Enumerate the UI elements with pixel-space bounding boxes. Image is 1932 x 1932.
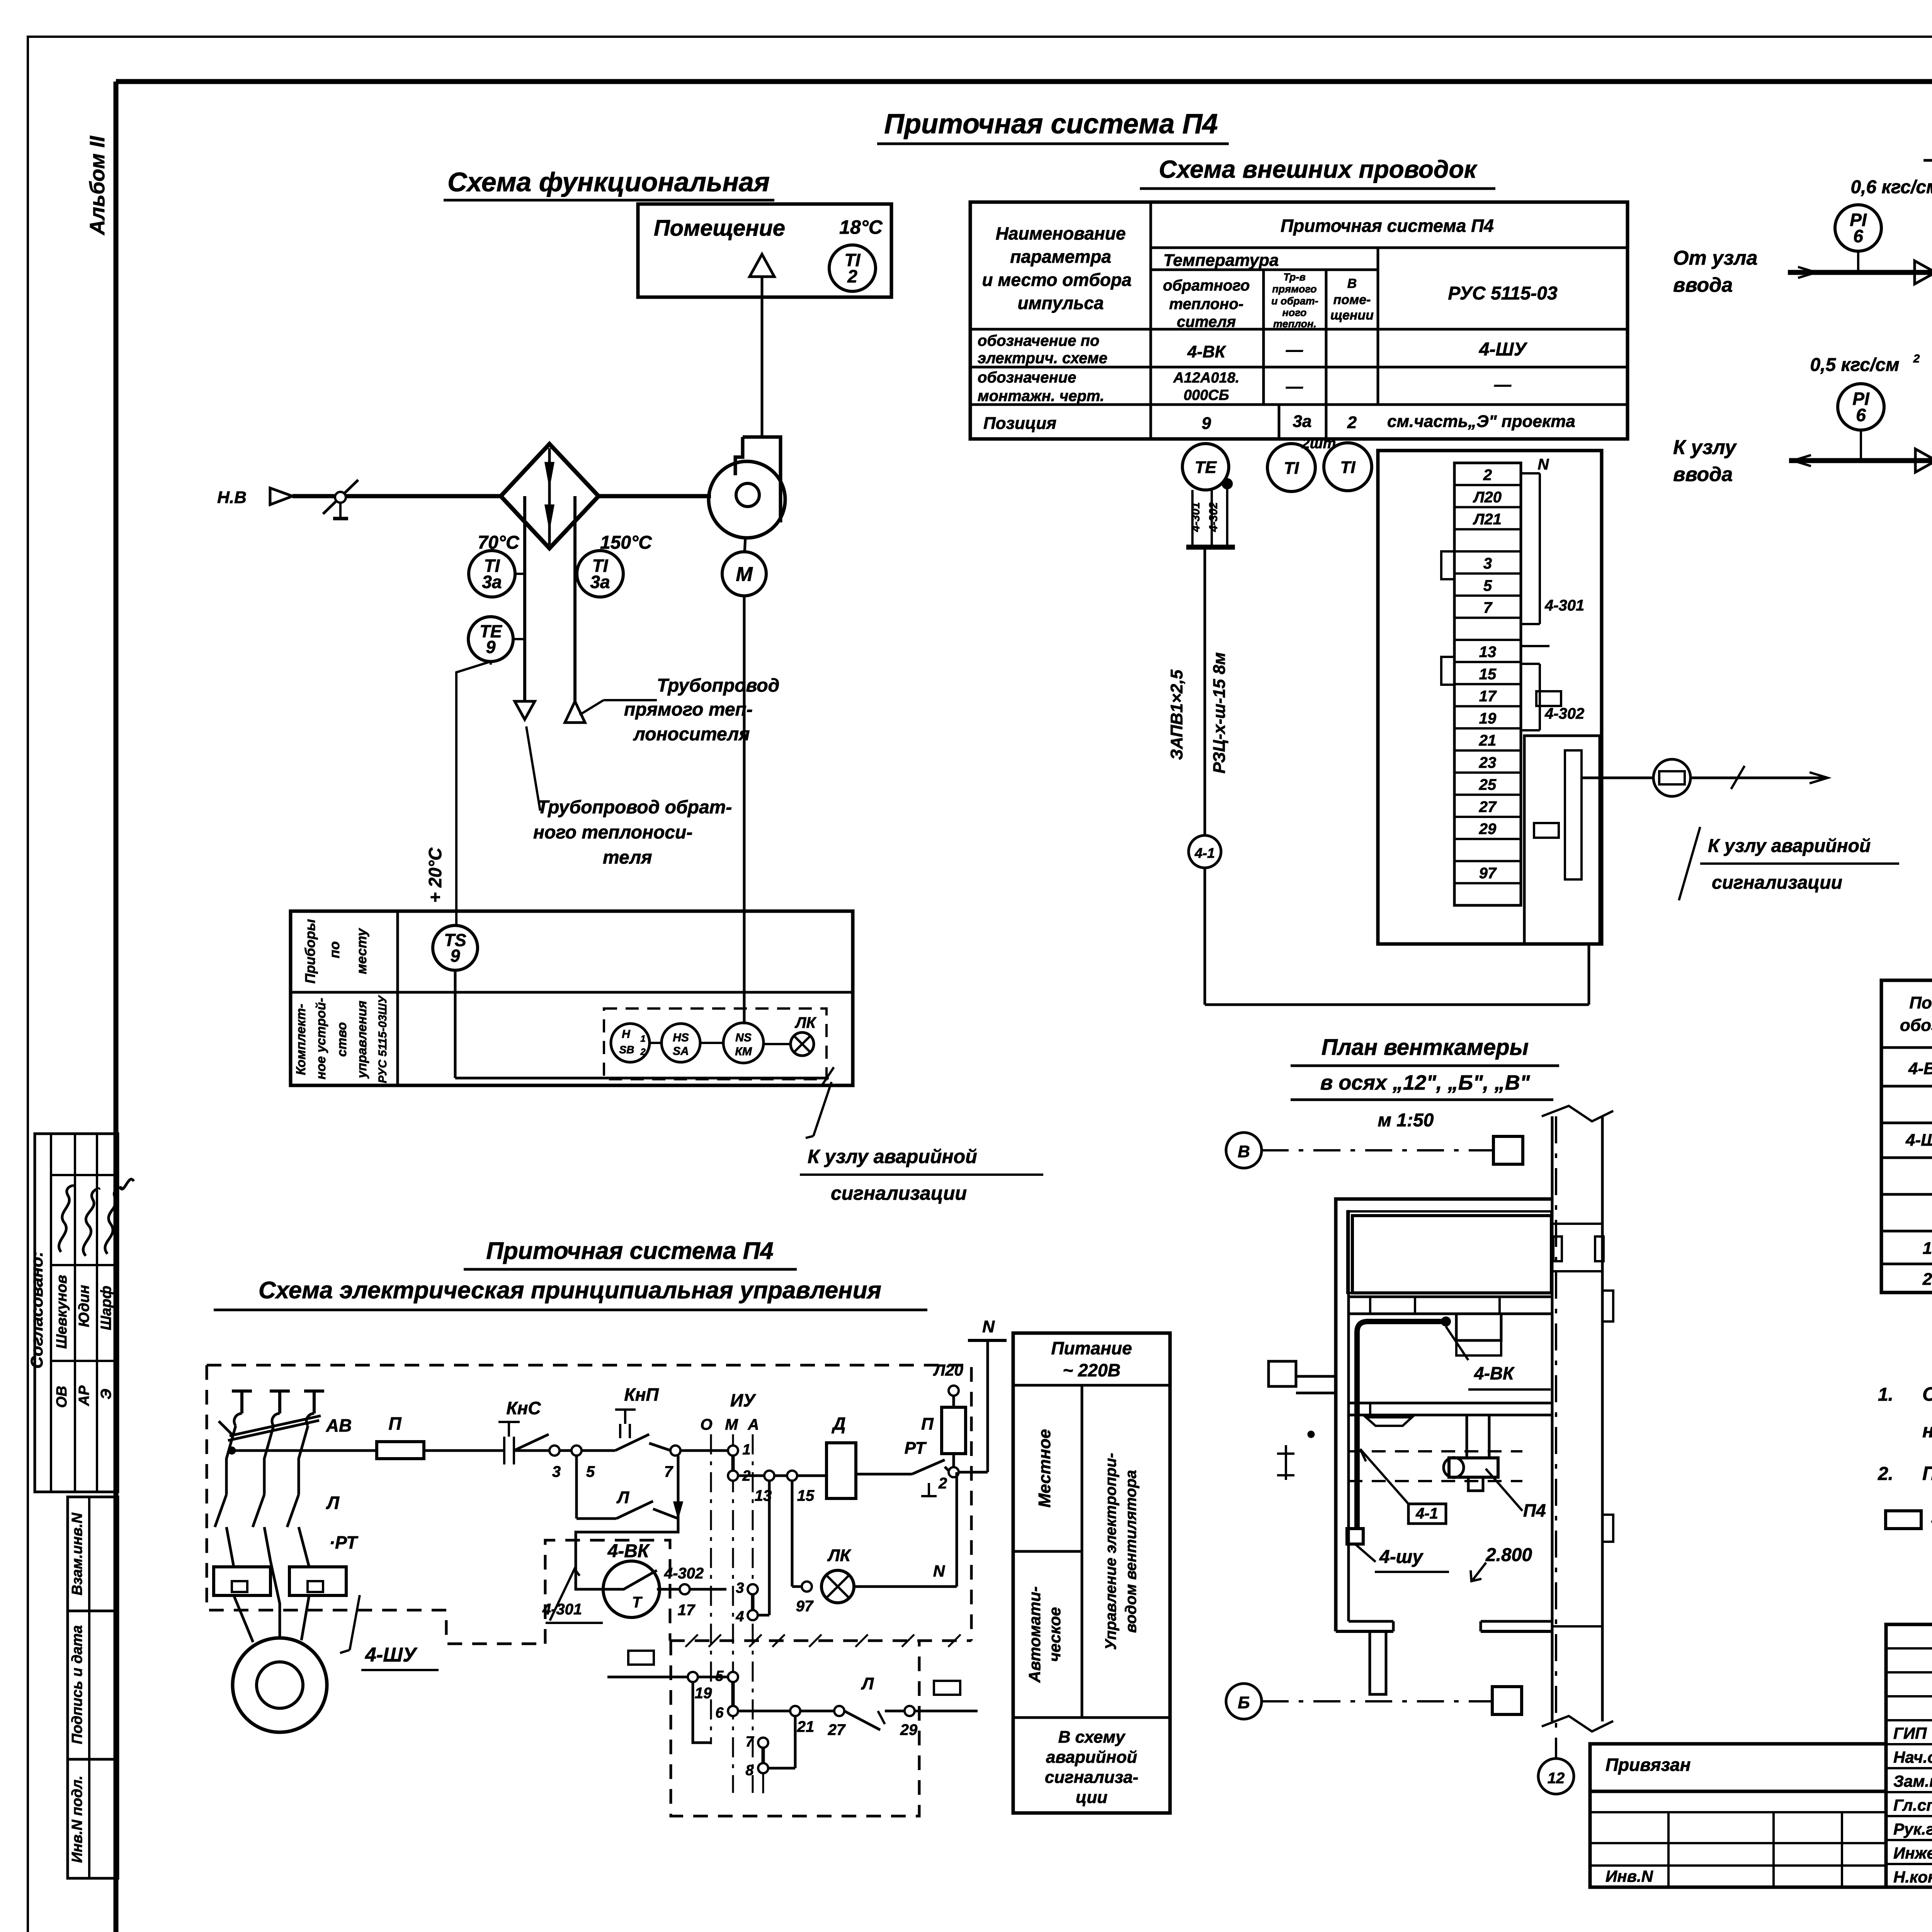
heavy cable 4-VK — [1357, 1321, 1446, 1529]
wire 2-13-15 — [738, 1475, 811, 1477]
air damper — [323, 480, 358, 514]
air duct line — [293, 494, 501, 498]
svg-text:носного манометра.: носного манометра. — [1922, 1420, 1932, 1442]
svg-text:Схема внешних проводок: Схема внешних проводок — [1159, 155, 1478, 183]
svg-text:4-302: 4-302 — [664, 1565, 704, 1582]
svg-text:теплоно-: теплоно- — [1169, 296, 1243, 313]
svg-text:обозн.: обозн. — [1900, 1016, 1932, 1035]
heat pipes — [523, 548, 526, 701]
svg-text:От узла: От узла — [1673, 247, 1758, 269]
svg-text:ное устрой-: ное устрой- — [314, 998, 328, 1079]
svg-text:Питание: Питание — [1051, 1338, 1132, 1358]
svg-text:~ 220В: ~ 220В — [1063, 1360, 1121, 1380]
wire 21 to 8 — [794, 1716, 797, 1768]
svg-text:ческое: ческое — [1046, 1607, 1064, 1662]
svg-text:2.: 2. — [1878, 1464, 1893, 1484]
title block attachment row — [1590, 1744, 1886, 1791]
svg-text:21: 21 — [797, 1718, 815, 1735]
svg-text:2: 2 — [1483, 467, 1492, 484]
wall window tabs — [1553, 1236, 1562, 1261]
svg-text:м 1:50: м 1:50 — [1378, 1110, 1434, 1131]
svg-text:Н.В: Н.В — [217, 488, 247, 507]
svg-text:70°C: 70°C — [478, 532, 520, 553]
main wire — [232, 1449, 377, 1452]
svg-text:Автомати-: Автомати- — [1026, 1586, 1044, 1683]
chamber walls — [1336, 1199, 1552, 1631]
label 4-shu plan — [1355, 1544, 1376, 1562]
svg-text:Инв.N: Инв.N — [1605, 1867, 1654, 1885]
wire 4 to 13 — [758, 1614, 769, 1617]
svg-text:ЛК: ЛК — [827, 1546, 851, 1565]
svg-text:9: 9 — [1202, 414, 1211, 433]
svg-text:19: 19 — [1479, 710, 1497, 727]
svg-text:15: 15 — [797, 1487, 815, 1504]
svg-text:ввода: ввода — [1673, 274, 1733, 296]
svg-text:4-ШУ: 4-ШУ — [1479, 339, 1528, 360]
svg-text:3а: 3а — [482, 572, 502, 592]
svg-text:обратного: обратного — [1163, 277, 1250, 294]
node 5 — [571, 1446, 582, 1456]
svg-text:Тр-в: Тр-в — [1283, 271, 1306, 283]
svg-text:М: М — [736, 563, 753, 586]
node 15 — [787, 1471, 797, 1481]
svg-text:ТI: ТI — [1340, 458, 1355, 477]
svg-text:Приточная система П4: Приточная система П4 — [884, 109, 1218, 139]
svg-text:К узлу: К узлу — [1673, 436, 1737, 459]
svg-text:сигнализации: сигнализации — [831, 1182, 967, 1204]
svg-text:4-ШУ: 4-ШУ — [365, 1644, 418, 1666]
svg-text:9: 9 — [450, 946, 460, 966]
svg-text:6: 6 — [1856, 405, 1866, 425]
svg-text:Приборы обозначенные (✳) учт: Приборы обозначенные (✳) учтены в части … — [1922, 1463, 1932, 1484]
svg-text:27: 27 — [1479, 798, 1497, 815]
three phase input — [232, 1389, 252, 1393]
middle wall — [1349, 1402, 1552, 1405]
relay block outline — [1524, 736, 1600, 944]
svg-text:ЗАПВ1×2,5: ЗАПВ1×2,5 — [1167, 670, 1186, 760]
svg-text:теплон.: теплон. — [1273, 318, 1316, 330]
svg-text:Л20: Л20 — [933, 1361, 963, 1379]
svg-text:П4: П4 — [1523, 1500, 1546, 1520]
svg-text:8: 8 — [745, 1762, 754, 1779]
svg-text:—: — — [1286, 340, 1303, 359]
svg-text:щении: щении — [1330, 308, 1374, 323]
svg-text:1: 1 — [1923, 1239, 1932, 1258]
vent arrow — [750, 254, 774, 277]
switch HS SA — [662, 1024, 700, 1062]
svg-text:2: 2 — [1347, 413, 1357, 432]
svg-text:0,5 кгс/см: 0,5 кгс/см — [1810, 355, 1899, 375]
svg-text:Отборные устройства обозначе: Отборные устройства обозначенные (✳✳) – … — [1922, 1383, 1932, 1405]
svg-text:3а: 3а — [1293, 412, 1312, 431]
svg-text:В: В — [1238, 1142, 1250, 1161]
cable down — [1204, 549, 1206, 835]
svg-text:SА: SА — [673, 1045, 689, 1058]
svg-text:4: 4 — [735, 1609, 744, 1625]
marker rect right — [934, 1681, 960, 1695]
svg-text:Инженер: Инженер — [1893, 1844, 1932, 1862]
svg-text:К узлу аварийной: К узлу аварийной — [808, 1146, 977, 1167]
svg-text:25: 25 — [1479, 776, 1497, 793]
svg-text:К узлу аварийной: К узлу аварийной — [1708, 836, 1871, 856]
svg-text:ОВ: ОВ — [54, 1386, 70, 1408]
svg-text:РУС 5115-03: РУС 5115-03 — [1448, 283, 1558, 304]
node 17 — [680, 1584, 690, 1594]
svg-text:NS: NS — [735, 1031, 752, 1044]
svg-text:5: 5 — [1483, 577, 1492, 594]
svg-text:3а: 3а — [590, 572, 610, 592]
right building wall — [1551, 1116, 1554, 1721]
svg-text:теля: теля — [603, 847, 652, 868]
svg-text:1.: 1. — [1878, 1384, 1893, 1405]
svg-text:4-ВК: 4-ВК — [607, 1541, 650, 1561]
svg-text:В: В — [1347, 276, 1357, 291]
svg-text:4-301: 4-301 — [1544, 597, 1584, 614]
svg-text:4-302: 4-302 — [1544, 705, 1584, 722]
return pipe — [1789, 458, 1932, 463]
cable to terminal box — [1204, 868, 1206, 1005]
svg-text:прямого: прямого — [1272, 283, 1317, 295]
node 2 — [949, 1467, 959, 1477]
terminal bracket 4-302 — [1521, 663, 1540, 665]
svg-text:19: 19 — [695, 1685, 712, 1702]
svg-text:12: 12 — [1548, 1770, 1565, 1787]
svg-text:Подпись и дата: Подпись и дата — [69, 1625, 85, 1744]
svg-text:18°C: 18°C — [839, 216, 883, 238]
svg-text:Схема функциональная: Схема функциональная — [447, 167, 770, 197]
instrument TI-2 — [829, 245, 876, 291]
svg-text:4-1: 4-1 — [1415, 1505, 1438, 1522]
svg-text:5: 5 — [715, 1668, 724, 1684]
svg-text:17: 17 — [1479, 688, 1497, 705]
marker rect lower — [1534, 823, 1559, 838]
svg-text:Нач.отд.: Нач.отд. — [1893, 1748, 1932, 1766]
svg-text:и место отбора: и место отбора — [982, 270, 1131, 290]
label 4-1 plan — [1408, 1504, 1446, 1524]
fan P4 — [735, 437, 743, 475]
svg-text:ство: ство — [335, 1022, 349, 1057]
svg-text:N: N — [982, 1317, 995, 1336]
svg-text:В схему: В схему — [1058, 1728, 1126, 1747]
grille symbol — [1366, 1417, 1412, 1426]
door pier — [1370, 1631, 1386, 1694]
svg-text:Взам.инв.N: Взам.инв.N — [69, 1512, 85, 1595]
svg-text:N: N — [1538, 456, 1549, 473]
axis B2 circle — [1226, 1684, 1262, 1719]
svg-text:управления: управления — [355, 1001, 369, 1079]
svg-text:Местное: Местное — [1035, 1429, 1054, 1507]
svg-text:4-ВК: 4-ВК — [1908, 1059, 1932, 1078]
section mark left — [1285, 1445, 1287, 1480]
svg-text:электрич. схеме: электрич. схеме — [978, 350, 1107, 367]
svg-text:27: 27 — [828, 1721, 846, 1738]
svg-text:SB: SB — [619, 1044, 634, 1056]
return pipe arrow down — [515, 701, 535, 719]
instrument TE-9 — [468, 617, 513, 662]
svg-text:Согласовано:: Согласовано: — [27, 1251, 46, 1369]
motor — [233, 1638, 327, 1732]
approval table — [35, 1134, 118, 1492]
node 29 — [905, 1706, 915, 1716]
svg-text:4-301: 4-301 — [542, 1601, 582, 1618]
wire 6-21-27 — [738, 1710, 835, 1713]
svg-text:3: 3 — [736, 1580, 744, 1596]
IU contact 5-6 — [728, 1672, 738, 1682]
label P4 — [1486, 1469, 1522, 1511]
svg-text:0,6 кгс/см: 0,6 кгс/см — [1850, 177, 1932, 197]
svg-text:ИУ: ИУ — [730, 1390, 757, 1410]
svg-text:Зам.н.о.: Зам.н.о. — [1893, 1772, 1932, 1790]
svg-text:4-302: 4-302 — [1207, 502, 1220, 532]
marker rect in cabinet — [628, 1651, 654, 1665]
svg-text:Л: Л — [616, 1488, 629, 1507]
svg-text:2: 2 — [640, 1047, 646, 1057]
svg-text:ввода: ввода — [1673, 463, 1733, 486]
contact L lower — [844, 1711, 880, 1730]
svg-text:Инв.N подл.: Инв.N подл. — [69, 1776, 85, 1863]
leader 4-301 — [550, 1569, 580, 1621]
svg-text:Э: Э — [98, 1389, 114, 1399]
staff table — [1886, 1624, 1932, 1887]
wire 7 to IU — [680, 1449, 728, 1452]
cabinet dashed enclosure — [207, 1365, 971, 1641]
svg-text:ТI: ТI — [1284, 459, 1299, 478]
svg-text:Л: Л — [861, 1674, 874, 1693]
svg-text:месту: месту — [354, 928, 369, 974]
button H SB1/2 — [611, 1024, 650, 1062]
svg-text:РУС 5115-03ШУ: РУС 5115-03ШУ — [376, 995, 389, 1083]
svg-text:Гл.спец.: Гл.спец. — [1893, 1796, 1932, 1814]
svg-text:7: 7 — [664, 1463, 673, 1480]
indicator TI first — [1267, 444, 1315, 492]
svg-text:Наименование: Наименование — [996, 223, 1126, 243]
parts table — [1881, 980, 1932, 1293]
svg-text:Приточная система П4: Приточная система П4 — [1281, 216, 1494, 236]
svg-text:Приточная система П4: Приточная система П4 — [486, 1238, 774, 1264]
svg-text:в осях „12", „Б", „В": в осях „12", „Б", „В" — [1320, 1071, 1531, 1094]
node 27 — [834, 1706, 844, 1716]
top strip line — [116, 79, 1932, 84]
marker rect upper — [1536, 691, 1561, 706]
svg-text:2: 2 — [1922, 1270, 1932, 1289]
room box Помещение — [638, 204, 891, 297]
alarm leader — [813, 1082, 832, 1136]
svg-text:·РТ: ·РТ — [329, 1532, 359, 1553]
svg-text:А12А018.: А12А018. — [1173, 370, 1239, 386]
conduit from TE — [1223, 479, 1232, 488]
svg-text:см.часть„Э" проекта: см.часть„Э" проекта — [1387, 412, 1575, 431]
svg-text:АР: АР — [76, 1385, 92, 1406]
svg-text:7: 7 — [1483, 599, 1493, 616]
svg-text:2.800: 2.800 — [1485, 1545, 1532, 1565]
dashed crossing boundary — [670, 1639, 971, 1642]
dashed channel lines — [1349, 1450, 1522, 1452]
heater diamond — [501, 444, 599, 548]
svg-text:2: 2 — [1913, 352, 1920, 365]
svg-text:сигнализа-: сигнализа- — [1045, 1768, 1138, 1787]
equipment band — [1349, 1296, 1552, 1298]
svg-text:лоносителя: лоносителя — [633, 724, 750, 745]
fuse P — [377, 1442, 424, 1459]
svg-text:П: П — [388, 1413, 401, 1434]
svg-text:Л20: Л20 — [1473, 489, 1502, 506]
svg-text:13: 13 — [1479, 644, 1497, 661]
svg-text:4-301: 4-301 — [1189, 502, 1202, 532]
svg-text:поме-: поме- — [1333, 293, 1371, 307]
svg-text:Позиция: Позиция — [983, 414, 1056, 433]
svg-text:и обрат-: и обрат- — [1271, 295, 1318, 307]
svg-text:21: 21 — [1479, 732, 1497, 749]
svg-text:КМ: КМ — [735, 1045, 752, 1058]
svg-text:Поз.: Поз. — [1909, 993, 1932, 1012]
svg-text:обозначение: обозначение — [978, 369, 1076, 386]
svg-text:4-ВК: 4-ВК — [1187, 342, 1226, 361]
connector circle — [1653, 759, 1690, 796]
svg-text:Д: Д — [831, 1413, 845, 1434]
title block left grid — [1590, 1791, 1886, 1887]
svg-text:аварийной: аварийной — [1046, 1748, 1137, 1767]
upper equipment room — [1352, 1216, 1551, 1293]
svg-text:параметра: параметра — [1010, 247, 1111, 267]
coil D — [827, 1443, 856, 1498]
node 21 — [790, 1706, 800, 1716]
svg-text:Комплект-: Комплект- — [294, 1004, 308, 1075]
axis B circle — [1226, 1133, 1262, 1168]
svg-text:9: 9 — [486, 637, 495, 657]
supply pipe — [1788, 270, 1932, 275]
svg-text:Рук.гр.: Рук.гр. — [1893, 1820, 1932, 1838]
terminal tabs — [1441, 551, 1454, 579]
axis 12 — [1555, 1116, 1557, 1757]
alarm line out — [1582, 777, 1654, 779]
svg-text:ЛК: ЛК — [794, 1014, 816, 1031]
svg-text:000СБ: 000СБ — [1184, 387, 1229, 403]
svg-text:Шарф: Шарф — [98, 1286, 114, 1330]
svg-text:29: 29 — [900, 1721, 918, 1738]
svg-text:Н: Н — [622, 1028, 631, 1041]
wiring table — [970, 202, 1628, 439]
4-VK wiring — [576, 1519, 678, 1589]
svg-text:Трубопровод: Трубопровод — [657, 675, 779, 696]
terminal box — [1378, 451, 1602, 944]
svg-text:4-шу: 4-шу — [1379, 1547, 1423, 1567]
svg-text:7: 7 — [745, 1734, 754, 1750]
label 4-VK plan — [1446, 1327, 1468, 1360]
terminal strip — [1454, 463, 1521, 905]
svg-text:Управление электропри-: Управление электропри- — [1102, 1453, 1119, 1650]
sensor box below — [1456, 1314, 1501, 1340]
local devices table — [291, 911, 853, 1085]
svg-text:Альбом II: Альбом II — [86, 136, 109, 236]
svg-text:обозначение по: обозначение по — [978, 332, 1099, 349]
svg-text:4-ВК: 4-ВК — [1474, 1363, 1515, 1383]
svg-text:прямого теп-: прямого теп- — [624, 699, 753, 720]
IU contact 7-8 — [758, 1738, 768, 1748]
lower dashed enclosure — [671, 1641, 919, 1816]
svg-text:—: — — [1494, 375, 1512, 394]
svg-text:ного: ного — [1282, 307, 1306, 318]
instrument TI-3a right — [577, 551, 623, 597]
node 97 — [802, 1582, 812, 1592]
IU contact 3-4 — [748, 1584, 758, 1594]
svg-text:РЗЦ-х-ш-15 8м: РЗЦ-х-ш-15 8м — [1210, 652, 1229, 774]
svg-text:97: 97 — [796, 1598, 814, 1615]
node 7 — [670, 1446, 680, 1456]
motor impulse line — [743, 596, 746, 1024]
wall lower features — [1552, 1625, 1602, 1628]
bypass contact L — [575, 1456, 578, 1519]
node 3 — [549, 1446, 560, 1456]
svg-text:150°C: 150°C — [600, 532, 652, 553]
svg-text:4-1: 4-1 — [1194, 845, 1215, 861]
svg-text:КнС: КнС — [506, 1398, 541, 1418]
IU contact 1-2 — [728, 1446, 738, 1456]
wall notches right — [1602, 1515, 1613, 1542]
left bracket box — [1269, 1361, 1296, 1386]
sensor TE — [1182, 444, 1229, 490]
svg-text:17: 17 — [678, 1602, 696, 1619]
wire 19-5 — [607, 1676, 728, 1679]
svg-text:П: П — [921, 1415, 934, 1434]
svg-text:N: N — [933, 1562, 946, 1580]
motor M circle — [722, 552, 766, 596]
svg-text:монтажн. черт.: монтажн. черт. — [978, 388, 1104, 405]
svg-text:Н.контр.: Н.контр. — [1893, 1868, 1932, 1886]
svg-text:КнП: КнП — [624, 1384, 659, 1405]
svg-text:Приборы: Приборы — [302, 919, 318, 983]
svg-text:—: — — [1286, 377, 1303, 396]
svg-text:Юдин: Юдин — [76, 1285, 92, 1327]
svg-text:импульса: импульса — [1018, 293, 1104, 313]
svg-text:Температура: Температура — [1163, 251, 1279, 270]
svg-text:НS: НS — [673, 1031, 689, 1044]
signal line to alarm — [455, 1077, 829, 1080]
svg-text:Л21: Л21 — [1473, 511, 1502, 528]
starter NS KM — [723, 1023, 764, 1063]
svg-text:О: О — [700, 1416, 712, 1433]
svg-text:97: 97 — [1479, 865, 1497, 882]
lamp circuit — [791, 1481, 794, 1587]
svg-text:Схема электрическая принципи: Схема электрическая принципиальная управ… — [259, 1277, 881, 1304]
node 19 — [688, 1672, 698, 1682]
svg-text:А: А — [748, 1416, 759, 1433]
svg-text:сигнализации: сигнализации — [1712, 872, 1842, 893]
svg-text:+ 20°C: + 20°C — [425, 847, 445, 903]
svg-text:Л: Л — [326, 1493, 340, 1513]
control dashed box — [604, 1009, 827, 1079]
svg-text:М: М — [725, 1416, 738, 1433]
svg-text:3: 3 — [552, 1463, 561, 1480]
cable sleeve 4-1 — [1189, 835, 1221, 868]
instrument TI-3a left — [469, 551, 515, 597]
4-ShU label — [350, 1595, 360, 1650]
node 13 — [764, 1471, 774, 1481]
instrument TS-9 — [433, 925, 478, 970]
svg-text:ного теплоноси-: ного теплоноси- — [533, 822, 692, 843]
svg-text:ТЕ: ТЕ — [1195, 458, 1217, 477]
breaker AB — [230, 1416, 321, 1436]
valve return 1 — [1915, 449, 1932, 472]
svg-text:4-ШУ: 4-ШУ — [1905, 1131, 1932, 1150]
svg-text:3: 3 — [1483, 555, 1492, 572]
svg-text:Помещение: Помещение — [654, 216, 785, 241]
svg-text:План венткамеры: План венткамеры — [1321, 1035, 1529, 1060]
svg-text:5: 5 — [586, 1463, 595, 1480]
svg-text:РТ: РТ — [905, 1439, 927, 1458]
svg-text:ции: ции — [1076, 1788, 1107, 1807]
svg-text:23: 23 — [1479, 754, 1497, 771]
cabinet square 4-ShU — [1347, 1529, 1363, 1544]
